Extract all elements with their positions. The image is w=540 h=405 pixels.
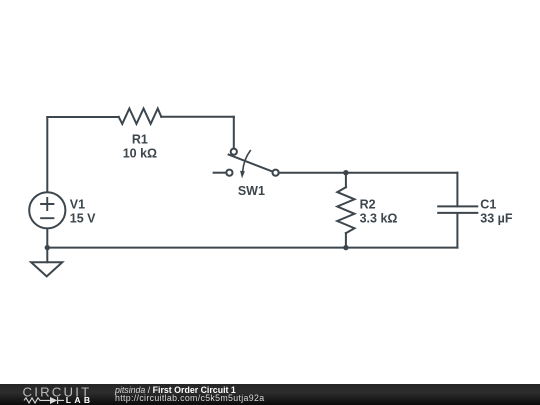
wire drop to switch bbox=[233, 117, 235, 149]
ground bbox=[31, 248, 62, 277]
svg-text:V1: V1 bbox=[70, 198, 85, 212]
CircuitLab logo bbox=[0, 384, 100, 405]
svg-text:10 kΩ: 10 kΩ bbox=[123, 147, 157, 161]
capacitor C1 bbox=[438, 206, 477, 213]
wire R2 top lead bbox=[345, 173, 347, 188]
wire C1 top lead bbox=[456, 173, 458, 207]
voltage source V1 bbox=[29, 192, 65, 228]
svg-text:R2: R2 bbox=[360, 198, 376, 212]
footer title text bbox=[115, 385, 236, 395]
svg-text:15 V: 15 V bbox=[70, 211, 96, 225]
switch SW1 bbox=[226, 149, 278, 179]
node ground junction bbox=[45, 245, 50, 250]
wire R2 bottom lead bbox=[345, 233, 347, 248]
svg-text:33 µF: 33 µF bbox=[480, 212, 513, 226]
wire top-left vertical bbox=[46, 117, 48, 192]
svg-text:SW1: SW1 bbox=[238, 184, 265, 198]
resistor R1 bbox=[119, 109, 162, 124]
svg-text:LAB: LAB bbox=[66, 395, 94, 405]
resistor R2 bbox=[337, 187, 354, 233]
footer bar bbox=[0, 384, 540, 405]
wire stub left of switch bbox=[214, 172, 227, 174]
wire top horizontal left of R1 bbox=[47, 116, 118, 118]
node R2 top junction bbox=[343, 170, 348, 175]
svg-text:R1: R1 bbox=[132, 133, 148, 147]
wire switch to right rail bbox=[279, 172, 458, 174]
node R2 bottom junction bbox=[343, 245, 348, 250]
wire bottom rail bbox=[47, 247, 457, 249]
svg-text:3.3 kΩ: 3.3 kΩ bbox=[360, 212, 398, 226]
footer url text bbox=[115, 393, 264, 403]
wire C1 bottom lead bbox=[456, 213, 458, 248]
wire V1 bottom lead bbox=[46, 229, 48, 248]
svg-text:C1: C1 bbox=[480, 198, 496, 212]
wire top horizontal right of R1 bbox=[161, 116, 234, 118]
